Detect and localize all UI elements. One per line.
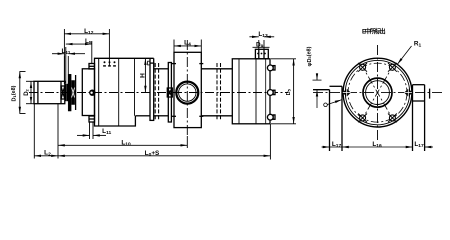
svg-text:D9: D9 (256, 42, 264, 50)
svg-text:R1: R1 (414, 41, 422, 49)
svg-text:L2: L2 (44, 150, 51, 158)
svg-text:L17: L17 (332, 141, 342, 149)
svg-text:D1(e8): D1(e8) (11, 85, 17, 101)
svg-text:L5: L5 (85, 38, 92, 46)
svg-text:L16: L16 (372, 141, 382, 149)
svg-text:φD3(e8): φD3(e8) (307, 46, 313, 66)
svg-text:H: H (140, 73, 147, 78)
svg-text:L11: L11 (102, 128, 111, 136)
svg-text:L10: L10 (121, 139, 131, 147)
svg-text:L0+S: L0+S (145, 150, 160, 158)
svg-text:L17: L17 (414, 141, 424, 149)
svg-text:L4: L4 (184, 40, 191, 48)
svg-text:L12: L12 (84, 28, 94, 36)
svg-text:D5: D5 (286, 88, 292, 95)
svg-text:D2: D2 (24, 88, 30, 95)
svg-text:E中所标出: E中所标出 (362, 28, 386, 36)
svg-text:L13: L13 (258, 31, 268, 39)
